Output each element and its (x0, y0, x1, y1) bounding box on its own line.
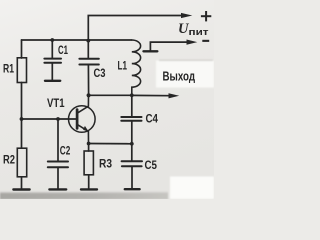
svg-text:C1: C1 (58, 43, 68, 57)
arrowhead output (169, 93, 180, 98)
resistor R1 (17, 58, 26, 83)
label minus (202, 40, 209, 42)
wire C1 top (51, 40, 53, 58)
bottom gray band (0, 191, 168, 199)
svg-text:пит: пит (189, 27, 210, 37)
wire base line (22, 118, 77, 120)
white patch behind Vyhod label (156, 60, 214, 87)
wire minus terminal (150, 42, 187, 51)
wire C3 stub (87, 41, 89, 58)
junction node C4-C5 (130, 142, 134, 146)
svg-text:R3: R3 (99, 157, 112, 171)
junction node base-left (20, 117, 24, 121)
junction node C3-rail (86, 39, 90, 43)
white patch bottom right (170, 177, 214, 200)
wire R3 bottom (88, 175, 90, 189)
junction node base-C2 (56, 117, 60, 121)
capacitor C4 (131, 95, 133, 116)
transistor VT1 base bar (76, 110, 79, 129)
capacitor C2 (48, 161, 68, 163)
wire top rail (22, 39, 132, 41)
wire C2 top (57, 119, 59, 161)
capacitor C3 (79, 58, 98, 60)
svg-text:C2: C2 (60, 144, 71, 158)
ground R2 (13, 188, 29, 190)
wire R1 bottom to base line (21, 83, 23, 120)
junction node emitter (87, 142, 91, 146)
resistor R2 (17, 148, 26, 177)
wire R2 top (21, 119, 23, 148)
junction node L1-C4 (130, 93, 134, 97)
wire emitter node line (89, 143, 132, 145)
ground C5 (125, 188, 140, 190)
svg-text:R2: R2 (3, 153, 15, 167)
arrowhead minus supply (187, 40, 198, 45)
paper background (0, 0, 214, 199)
ground C2 (49, 188, 66, 190)
ground C1 (45, 80, 60, 82)
wire collector node line (89, 94, 132, 96)
resistor R3 (84, 151, 93, 175)
wire R1 column top (21, 40, 23, 58)
svg-text:Выход: Выход (163, 69, 196, 84)
wire supply riser (88, 16, 181, 41)
ground minus terminal (144, 50, 158, 52)
svg-text:C3: C3 (94, 66, 106, 80)
transistor VT1 emitter lead (78, 125, 89, 144)
arrowhead emitter (83, 126, 89, 132)
arrowhead plus supply (181, 13, 192, 18)
transistor VT1 collector lead (78, 95, 89, 112)
svg-text:VT1: VT1 (47, 96, 65, 110)
ground R3 (81, 188, 97, 190)
svg-text:C5: C5 (145, 158, 158, 172)
junction node collector (87, 93, 91, 97)
svg-text:C4: C4 (146, 112, 159, 126)
junction node C1-rail (50, 38, 54, 42)
wire output arrow line (132, 94, 170, 96)
svg-text:L1: L1 (118, 59, 128, 73)
capacitor C1 (44, 58, 61, 60)
capacitor C5 (131, 144, 133, 161)
label plus (201, 15, 211, 17)
wire R3 top (88, 144, 90, 152)
transistor VT1 circle (69, 106, 96, 133)
wire R2 bottom (21, 177, 23, 189)
svg-text:R1: R1 (3, 62, 14, 76)
inductor L1 (132, 40, 141, 95)
